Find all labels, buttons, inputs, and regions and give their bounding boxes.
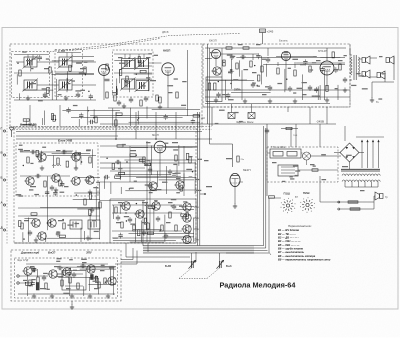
junction rail t [204, 193, 206, 195]
wire power drop [295, 124, 297, 147]
wire mid row4 [150, 189, 198, 191]
wire if top bus2 [57, 52, 81, 54]
transistor T10b P41 [181, 235, 191, 243]
tiny label 112 [23, 280, 27, 281]
wire converter block bottom bus [108, 107, 186, 109]
loudspeaker Gr4 [377, 71, 385, 79]
wire ksdvA h6 [47, 237, 101, 239]
wire ukvblk h2 [47, 154, 96, 156]
resistor ifstrip6b [116, 113, 122, 115]
resistor R13 [236, 63, 238, 69]
capacitor C32 [142, 230, 146, 236]
capacitor C1 [43, 92, 47, 98]
rotary switch wafer P1Sh [281, 191, 296, 213]
wire wafer feed [269, 197, 281, 199]
wire afblk v9 [230, 59, 232, 89]
ground g23 [50, 294, 54, 299]
resistor ksdvA1b [59, 235, 65, 237]
pot dashed link 2 [207, 268, 220, 279]
junction ifstripd1 [137, 119, 138, 120]
resistor R44 [189, 157, 191, 163]
wire bridge bottom [349, 162, 351, 169]
capacitor C42 [115, 160, 121, 164]
resistor R26 [63, 223, 65, 229]
junction afblkd2 [257, 85, 258, 86]
capacitor ksdvA8 [53, 190, 57, 196]
resistor R47 [237, 156, 239, 162]
tiny label 2 [58, 94, 62, 95]
resistor ukvblk2b [75, 153, 81, 155]
value label 58 [206, 186, 212, 187]
tiny label 108 [101, 265, 105, 266]
IF transformer L15/L16 [135, 79, 151, 92]
value label 35 [168, 202, 173, 203]
value label 11 [112, 92, 117, 93]
wire band ext right [226, 252, 254, 254]
IF transformer L1/L2 [23, 56, 39, 69]
value label 18 [252, 72, 257, 73]
wire ifblk v4 [30, 62, 32, 71]
ground g10 [343, 88, 347, 93]
tiny label 10 [61, 50, 65, 51]
ground g26 [54, 188, 58, 193]
resistor R12 [223, 60, 225, 66]
block outline: inner phono sub-block [15, 258, 118, 298]
wire convblk v3 [116, 78, 118, 95]
tiny label 84 [292, 59, 298, 60]
junction phonod1 [32, 266, 33, 267]
tiny label 22 [75, 90, 81, 91]
wire ukvblk h3 [62, 150, 73, 152]
tiny label 11 [182, 81, 186, 82]
block outline: phono amplifier unit (bottom-left) [11, 250, 121, 301]
tiny label 69 [171, 205, 175, 206]
value label 51 [100, 270, 105, 271]
tiny label 24 [142, 85, 146, 86]
resistor ifstrip7 [115, 120, 117, 126]
block outline: KSDV block [14, 128, 196, 243]
junction ukvblkd2 [81, 161, 82, 162]
resistor ukvblk3 [66, 161, 68, 167]
tiny label 31 [145, 184, 149, 185]
tiny label 53 [146, 184, 151, 185]
tiny label 107 [69, 259, 73, 260]
resistor ifstrip21 [53, 115, 55, 121]
resistor R2 [49, 67, 51, 73]
tiny label 58 [34, 194, 39, 195]
wire midB h1 [113, 240, 176, 242]
resistor convblk1 [119, 69, 121, 75]
wire midA h9 [131, 147, 148, 149]
psu filter vert [290, 129, 292, 148]
junction ifstripd4 [88, 110, 89, 111]
tiny label 98 [56, 261, 60, 262]
resistor ifblk2 [69, 65, 71, 71]
tiny label 61 [67, 225, 73, 226]
value label 34 [142, 202, 148, 203]
wire ukv row [20, 151, 72, 153]
value label 4 [80, 68, 86, 69]
value label 33 [118, 202, 123, 203]
junction afblkd6 [218, 81, 219, 82]
wire midB v4 [164, 215, 166, 242]
resistor R10 [226, 47, 232, 49]
value label 52 [40, 288, 46, 289]
wire afblk h4 [276, 56, 313, 58]
wire bridge left [334, 152, 340, 154]
resistor R23 [44, 181, 46, 187]
wire conv right rail [187, 50, 189, 116]
wire midB v7 [188, 225, 190, 242]
junction j4 [159, 230, 160, 231]
wire convblk h4 [131, 78, 152, 80]
wire ifblk v7 [67, 71, 69, 90]
IF transformer L13/L14 [120, 78, 136, 91]
wire midA h5 [121, 146, 196, 148]
resistor R32 [133, 225, 135, 231]
coupling wires af [221, 48, 295, 68]
wire ground bus AF block [205, 103, 330, 105]
resistor ifstrip22 [51, 114, 53, 120]
junction ifblkd3 [85, 74, 86, 75]
tiny label 36 [196, 179, 200, 180]
IF transformer L5/L6 [23, 79, 39, 92]
resistor R19 cathode [339, 64, 341, 70]
tiny label 25 [32, 58, 36, 59]
value label 57 [176, 178, 181, 179]
value label 43 [226, 158, 232, 159]
resistor midA3 [180, 185, 182, 191]
tiny label 37 [189, 176, 193, 177]
wire mid row1 [100, 145, 155, 147]
ground g11 speakers [370, 98, 374, 103]
capacitor afblk9 [303, 59, 307, 65]
terminal Д [1, 226, 6, 232]
value label 44 [272, 162, 277, 163]
wire midB h3 [162, 236, 194, 238]
resistor midB7b [148, 206, 154, 208]
block outline: inner IF sub-block 1 [12, 52, 50, 98]
capacitor C22 [50, 185, 54, 191]
pilot lamp [303, 152, 311, 160]
wire psu down1 [319, 176, 321, 202]
wire ksdvA v5 [99, 182, 101, 240]
wire midA v10 [150, 145, 152, 175]
IF transformer L3/L4 [58, 56, 74, 69]
resistor R33 [147, 223, 149, 229]
resistor Rc4i [159, 97, 161, 103]
wire convblk v4 [128, 84, 130, 93]
capacitor afblk7 [321, 67, 325, 73]
junction afblkd5 [223, 62, 224, 63]
value label 25 [24, 150, 30, 151]
wire phono v6 [69, 278, 71, 296]
block outline: UKV tuner block [16, 143, 98, 196]
capacitor C16 [308, 85, 312, 91]
tiny label 135 [344, 55, 347, 56]
tiny label 133 [379, 56, 383, 57]
tiny label 59 [183, 201, 187, 202]
wire phono h4 [80, 268, 116, 270]
wire ladder x150 [149, 160, 151, 242]
tiny label 3 [80, 90, 85, 91]
tiny label 110 [57, 258, 62, 259]
capacitor C63 [42, 275, 46, 281]
wire bundle band [143, 246, 269, 254]
resistor ifblk4 [47, 88, 49, 94]
capacitor C26 [90, 207, 94, 213]
capacitor C12 [240, 55, 246, 59]
value label 7 [30, 83, 36, 84]
power transformer T1 [341, 169, 380, 181]
resistor R6 [114, 95, 116, 101]
capacitor C13 [251, 82, 255, 88]
ground g20 [32, 294, 36, 299]
wire ifstrip v8 [87, 107, 89, 125]
junction phonod4 [105, 282, 106, 283]
potentiometer R volume [189, 260, 197, 269]
wire mid y200 [100, 200, 145, 202]
tiny label 33 [196, 190, 201, 191]
junction ifstripd2 [93, 117, 94, 118]
resistor R15a [258, 75, 260, 81]
resistor R36 [175, 225, 177, 231]
capacitor C30 [116, 215, 120, 221]
resistor R14 [250, 61, 252, 67]
pot dashed link 3 [179, 278, 207, 280]
resistor midB4 [138, 230, 140, 236]
wire ifstrip h3 [129, 121, 200, 123]
tiny label 70 [29, 189, 33, 190]
resistor R21 [57, 158, 59, 164]
wire convblk h1 [134, 73, 152, 75]
junction afblkd3 [254, 65, 255, 66]
tiny label 77 [265, 86, 269, 87]
tiny label 80 [233, 79, 238, 80]
ground g1 [26, 96, 30, 101]
resistor phono4b [26, 283, 32, 285]
wire AVC bus [16, 138, 212, 140]
resistor convblk2 [126, 76, 128, 82]
transistor T12 [120, 202, 130, 210]
resistor midB2 [144, 218, 146, 224]
resistor afblk6 [326, 85, 328, 91]
wire vertical x212 down [211, 107, 213, 126]
wire ksdvA v7 [46, 176, 48, 230]
value label 54 [94, 288, 99, 289]
tiny label 105 [109, 266, 114, 267]
wire ukvblk v2 [75, 150, 77, 168]
output transformer T2 [350, 48, 360, 80]
tiny label 26 [46, 58, 50, 59]
value label 42 [204, 160, 209, 161]
wire ksdvA h2 [74, 192, 100, 194]
transistor T3 [24, 177, 34, 185]
capacitor phono5 [67, 270, 71, 276]
block outline: power selector box [267, 147, 338, 182]
wire can stub 6 [129, 54, 131, 59]
tiny label 13 [76, 63, 82, 64]
resistor ksdvA5 [89, 193, 91, 199]
tiny label 52 [16, 194, 21, 195]
wire interstage vertical 4 [175, 112, 177, 139]
junction midBd1 [143, 233, 144, 234]
transistor T5 [30, 219, 40, 227]
block outline: inner IF sub-block 2 [55, 50, 83, 97]
wire ksdvA h4 [73, 199, 100, 201]
tube V4 6N2P [281, 51, 290, 60]
wire mid v2 [183, 146, 185, 196]
ground stub below box [71, 301, 73, 305]
wire midA h7 [115, 174, 171, 176]
wire lower bus of AF block [205, 89, 350, 91]
resistor R27 [99, 202, 101, 208]
tiny label 32 [146, 160, 149, 161]
capacitor phono1 [30, 281, 34, 287]
ground g13 [74, 166, 78, 171]
wire afblk v6 [319, 85, 321, 100]
tiny label 138 [378, 98, 382, 99]
electrolytic cap C66 [36, 283, 39, 291]
tiny label 131 [382, 73, 386, 74]
wire phono v8 [27, 274, 29, 296]
capacitor C40 [148, 167, 152, 173]
wire mid v1 [129, 146, 131, 182]
value label 48 [30, 266, 35, 267]
tiny label 55 [145, 205, 150, 206]
transistor stage A [211, 67, 221, 75]
value label 8 [66, 83, 71, 84]
wire output tube plate [326, 48, 328, 61]
wire phono h3 [58, 276, 92, 278]
wire v6 stem [159, 153, 161, 176]
capacitor afblk2 [334, 67, 338, 73]
transistor T6 [46, 219, 56, 227]
capacitor C23 [35, 174, 41, 178]
wire ukvblk v5 [53, 156, 55, 168]
wire ksdvA v2 [95, 186, 97, 227]
junction midAd3 [192, 171, 193, 172]
tiny label 113 [282, 181, 285, 182]
capacitor C24 [28, 230, 32, 236]
capacitor C21 [61, 150, 67, 154]
tube V1 6K4P [99, 65, 110, 76]
loudspeaker Gr2 [386, 56, 394, 64]
junction j1 [115, 138, 117, 140]
resistor midA2 [112, 163, 114, 169]
tiny label 39 [149, 192, 153, 193]
wire conv to tube [149, 62, 162, 64]
wire bundle to switches [264, 126, 272, 255]
capacitor ksdvA4 [60, 181, 64, 187]
ground g5 [214, 98, 218, 103]
tiny label 124 [19, 145, 23, 146]
resistor R52 [269, 196, 275, 198]
ground g3 [122, 104, 126, 109]
tiny label 4 [174, 78, 178, 79]
ground g7 [268, 99, 272, 104]
transistor T21 [85, 265, 95, 273]
resistor R40 [143, 157, 145, 163]
tiny label 23 [38, 100, 43, 101]
wire ifstrip v1 [93, 109, 95, 118]
tiny label 81 [293, 92, 296, 93]
block outline: AF amplifier unit (top-right) [203, 44, 350, 107]
junction midAd5 [136, 155, 137, 156]
wire top-left block internal bus [14, 99, 96, 101]
junction convblkd2 [128, 57, 129, 58]
tiny label 12 [167, 85, 173, 86]
wire afblk v5 [265, 64, 267, 77]
wire phono v4 [37, 269, 39, 277]
junction midAd1 [126, 161, 127, 162]
resistor R16 [277, 68, 279, 74]
capacitor ifstrip2 [191, 119, 195, 125]
value label 32 [92, 220, 97, 221]
wire v7 down [234, 187, 236, 204]
resistor ksdvA3b [31, 213, 37, 215]
phono lead joins [320, 196, 375, 209]
value label 23 [262, 94, 267, 95]
wire ifstrip h5 [71, 117, 183, 119]
resistor R4 [156, 95, 158, 101]
tiny label 85 [302, 82, 307, 83]
wire mid row2 [100, 167, 145, 169]
value label 39 [146, 142, 151, 143]
tiny label 103 [43, 273, 48, 274]
tiny label 115 [290, 178, 294, 179]
ground g22 [70, 305, 74, 310]
tiny label 65 [89, 238, 93, 239]
wire midA v1 [120, 187, 122, 194]
ground g4 [158, 105, 162, 110]
wire ksdvA v8 [45, 233, 47, 242]
resistor R25 [21, 223, 23, 229]
resistor ifstrip9b [193, 115, 199, 117]
ground g27 [88, 190, 92, 195]
resistor R28 [84, 199, 86, 205]
tiny label 132 [356, 73, 361, 74]
tiny label 125 [20, 150, 24, 151]
tiny label 82 [297, 88, 303, 89]
wire V4 stem [285, 61, 287, 90]
transistor T24 [22, 267, 32, 275]
junction ksdvAd2 [23, 238, 24, 239]
IF transformer L9/L10 [120, 57, 136, 70]
tiny label 79 [243, 69, 248, 70]
transistor T4 [70, 177, 80, 185]
capacitor C31 [128, 217, 132, 223]
wire afblk v7 [301, 74, 303, 100]
capacitor C10 [230, 54, 234, 60]
resistor R41 [175, 155, 177, 161]
wire midB v3 [141, 221, 143, 243]
tiny label 121 [313, 166, 316, 167]
value label 6 [146, 57, 151, 58]
wire af v222 [221, 48, 223, 77]
wire center row b [112, 212, 182, 214]
block AF right dashed [349, 44, 351, 107]
tiny label 20 [148, 53, 152, 54]
wire mains top [356, 136, 384, 138]
wire afblk h7 [320, 56, 345, 58]
resistor R63 [61, 280, 63, 286]
antenna symbol [9, 128, 14, 138]
tiny label 86 [288, 68, 291, 69]
tiny label 17 [154, 55, 158, 56]
value label 37 [142, 222, 148, 223]
tiny label 78 [313, 56, 317, 57]
